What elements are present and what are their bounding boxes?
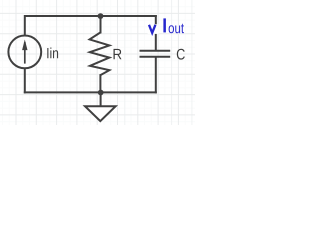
wire: resistor bottom lead [99, 75, 101, 92]
current probe label Iout (white mask over wire) [148, 24, 159, 34]
resistor R [90, 32, 110, 75]
junction node at bottom of resistor [98, 90, 104, 96]
wire: resistor top lead [100, 16, 102, 32]
probe label I [163, 18, 166, 32]
current source Iin [8, 36, 41, 69]
wire: top rail from current source to capacitor [25, 16, 156, 35]
capacitor C [140, 51, 171, 57]
grid (decorative) [0, 0, 195, 125]
wire: bottom rail [25, 91, 156, 93]
wire: current source bottom lead [24, 69, 26, 92]
ground [85, 106, 116, 121]
probe label out [169, 24, 184, 34]
junction node at top of resistor [98, 13, 104, 19]
label Iin [47, 47, 58, 58]
probe arrow V [149, 25, 155, 33]
wire: capacitor bottom lead [155, 58, 157, 93]
wire: ground stub [100, 92, 102, 105]
label R [114, 49, 122, 59]
label C [177, 49, 185, 60]
wire: capacitor top lead [155, 16, 157, 50]
